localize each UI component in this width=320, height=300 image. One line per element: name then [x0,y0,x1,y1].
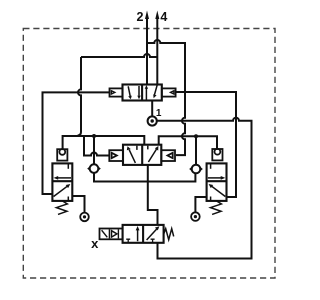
junction dot [194,134,198,138]
op valve U1 (top 5/2 valve) [123,85,162,101]
valve U2 (middle double pilot valve) [123,145,161,165]
wire: supply line from port 1 right, hop over x=236, down right side, along bottom to bottom valve [157,118,252,259]
V1 top box symbols [57,177,71,179]
svg-text:x: x [91,236,99,251]
V1 bottom box symbols [54,186,68,197]
node 2 (output line with arrow) [146,18,148,85]
U2 right pilot box [161,150,175,161]
V3 pilot box (X signal) [100,229,123,240]
U1 right box flow symbols [146,85,157,100]
svg-text:2: 2 [137,10,144,24]
wire: pilot stub x=84 down from bus, right to middle valve left pilot, hop over x=94 [84,136,110,156]
check circle R [192,165,201,174]
V2 bottom box symbols [211,186,225,197]
valve V3 (bottom 3/2 pilot valve) [123,225,164,243]
wire: below circle L down and right along y=181.5 to below circle R [94,173,195,182]
wire: port 1 stem from top valve bottom [151,101,153,117]
V2 return spring [211,201,222,214]
wire: V2 left port to exhaust port circle [195,197,206,212]
V2 pilot head box with circle [212,149,222,161]
wire: top valve right pilot node to x=236, down to right actuator right port [176,92,236,197]
wire: x=196 drop from bus B to check circle R [195,136,197,164]
U2 right box flow symbols [148,149,156,162]
wire: signal bus B y=136.3 from middle valve top-right port to right actuator pilot [159,136,217,149]
node 4 (output line with arrow) [156,18,158,85]
junction dot [92,134,96,138]
U2 left box flow symbols [129,150,135,163]
U1 left box flow symbols [128,86,139,96]
V1 return spring [56,201,67,214]
wire: vertical x=81 down, hop over y=92.4 wire, to signal bus y=136 [78,57,81,136]
wire: top valve left pilot to x=42.5 and down to left actuator inlet [43,92,110,194]
wire: middle valve bottom port jog down to bottom valve top port [148,165,158,225]
wire: branch from line 4 at y=57 hopping over line 2, left to x=81 [81,54,157,57]
U1 right pilot box [162,88,176,96]
wire: V1 right port to exhaust port circle [72,196,84,213]
wire: x=94 drop from bus to check circle L [93,136,95,164]
U2 left pilot box [109,150,123,161]
valve V2 (right actuator 3/2 valve) [207,163,227,201]
port 1 supply circle [148,116,157,125]
valve V1 (left actuator 3/2 valve) [52,163,72,201]
check circle L [90,164,99,173]
U1 left pilot box [110,88,123,96]
port circle (exhaust) left [80,213,89,222]
V2 top box symbols [208,177,222,179]
dashed enclosure border [23,29,275,279]
svg-text:4: 4 [160,10,167,24]
V3 return spring [164,229,174,240]
wire: branch from line 2 at y=43 hopping over line 4, to x=185 then down to valve right pilot node [147,40,185,92]
wire: signal bus A y=136 from left actuator pilot drop to middle valve top-left port [63,136,145,149]
svg-text:1: 1 [156,108,162,119]
V3 right box symbols [147,228,158,240]
port circle (exhaust) right [191,212,200,221]
wire: x=185 from junction down (hops over supply and bus) to middle valve right pilot [176,92,185,155]
V1 pilot head box with circle [57,149,67,161]
V3 left box symbols [137,230,139,242]
